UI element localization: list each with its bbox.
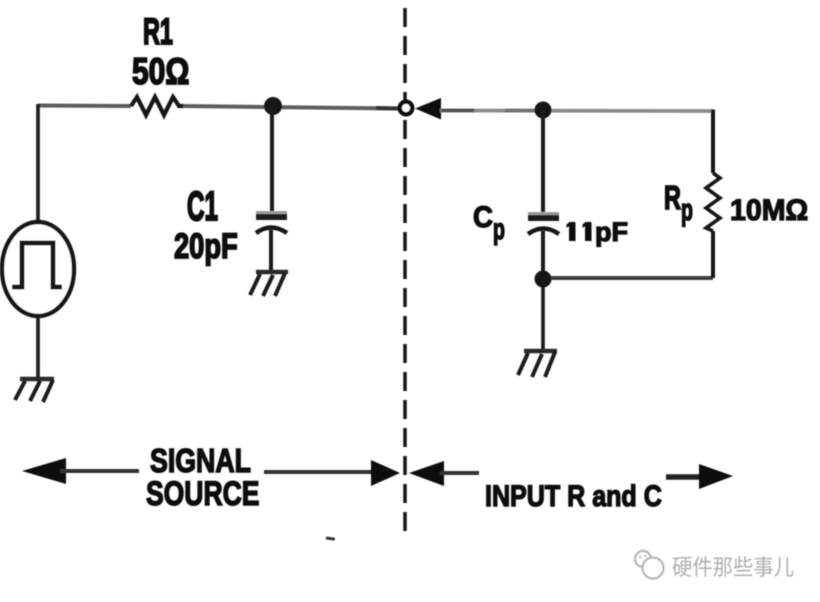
svg-text:20pF: 20pF [174, 227, 238, 266]
svg-text:C1: C1 [187, 185, 218, 230]
svg-text:p: p [493, 213, 505, 246]
svg-text:R1: R1 [143, 11, 173, 53]
svg-text:50Ω: 50Ω [132, 52, 189, 93]
svg-text:SOURCE: SOURCE [146, 475, 259, 513]
svg-text:pF: pF [595, 217, 628, 247]
svg-text:p: p [681, 194, 693, 228]
svg-text:10MΩ: 10MΩ [730, 194, 808, 227]
svg-text:硬件那些事儿: 硬件那些事儿 [672, 555, 794, 580]
svg-text:INPUT R and C: INPUT R and C [485, 479, 662, 513]
svg-text:R: R [664, 180, 681, 217]
svg-text:C: C [473, 201, 493, 234]
